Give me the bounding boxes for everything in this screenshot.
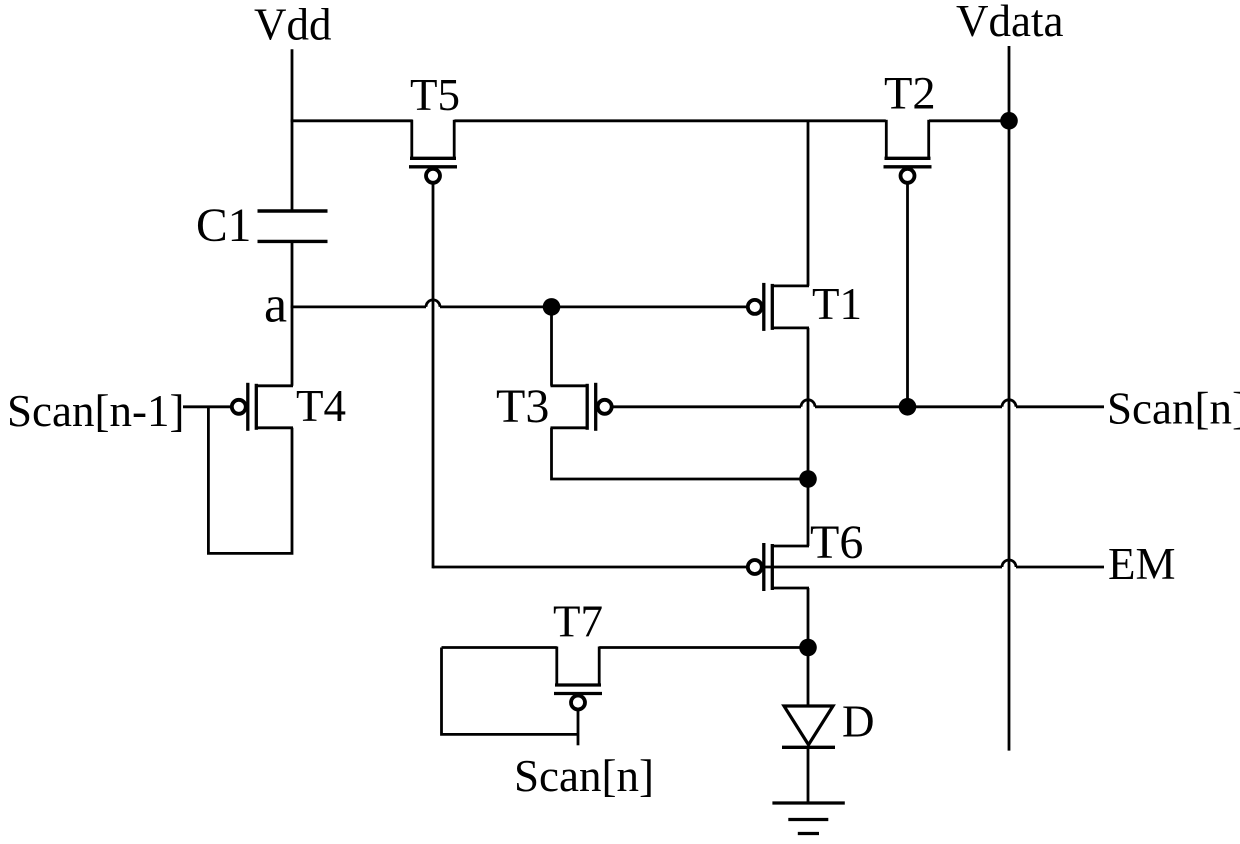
junction: Scan[n] / T2 gate: [899, 398, 917, 416]
transistor T5: [409, 120, 457, 183]
wire T7 gate down to Scan[n] label: [577, 710, 580, 745]
svg-text:Scan[n-1]: Scan[n-1]: [7, 386, 184, 436]
svg-text:EM: EM: [1108, 539, 1176, 589]
wire top rail: Vdd to T5: [291, 119, 413, 122]
svg-text:T1: T1: [812, 279, 862, 329]
svg-text:Scan[n]: Scan[n]: [514, 751, 654, 801]
svg-text:a: a: [264, 277, 287, 334]
svg-text:Vdd: Vdd: [254, 0, 332, 50]
wire Scan[n] (hops over T1 wire and Vdata): [612, 405, 1104, 408]
transistor T2: [884, 120, 932, 183]
wire T3 branch from node a: [550, 307, 553, 386]
svg-text:C1: C1: [196, 200, 251, 252]
svg-text:T7: T7: [553, 597, 603, 647]
wire T1 source down to node b: [807, 328, 810, 479]
wire top rail: T5 to T2: [454, 119, 885, 122]
wire diode anode: [807, 648, 810, 707]
wire T7 source loop to gate: [442, 648, 579, 735]
junction: node c (T7 / diode): [799, 639, 817, 657]
wire T5 gate down to EM: [432, 184, 435, 569]
wire T6 source down to node c: [807, 588, 810, 648]
svg-text:D: D: [842, 697, 875, 747]
wire C1 bottom plate down to T4 drain (through node a): [291, 241, 294, 385]
wire Scan[n-1] to T4 gate: [183, 405, 233, 408]
svg-text:T6: T6: [810, 516, 863, 569]
transistor T1: [748, 283, 809, 331]
transistor T4: [232, 383, 293, 431]
transistor T6: [748, 543, 809, 591]
diode D: [782, 706, 835, 747]
wire diode cathode to ground: [807, 747, 810, 803]
ground: [772, 803, 844, 834]
wire Vdd vertical: [291, 49, 294, 211]
wire node a horizontal (hops over T5 gate wire): [291, 305, 749, 308]
wire T3 source loop to node b: [552, 428, 809, 479]
svg-text:T3: T3: [496, 380, 549, 433]
wire EM (hops over Vdata): [433, 566, 1104, 569]
wire Vdata vertical: [1008, 46, 1011, 751]
svg-text:T2: T2: [884, 69, 936, 120]
wire T7 top rail: T7 right leg to node c: [599, 646, 808, 649]
svg-text:Vdata: Vdata: [956, 0, 1063, 46]
capacitor C1: [258, 211, 328, 241]
junction: top rail / Vdata: [1000, 112, 1018, 130]
transistor T7: [554, 647, 602, 710]
junction: T3 loop / T1-T6 wire (node b): [799, 470, 817, 488]
wire T1 drain up to top rail: [807, 121, 810, 286]
wire top rail: T2 to Vdata: [929, 119, 1009, 122]
wire T7 top rail: loop corner to T7 left leg: [442, 646, 557, 649]
wire node b down to T6 drain: [807, 479, 810, 546]
svg-text:T4: T4: [296, 381, 346, 431]
svg-text:T5: T5: [410, 70, 460, 120]
transistor T3: [551, 383, 612, 431]
svg-text:Scan[n]: Scan[n]: [1107, 383, 1240, 433]
junction: node a / T3 branch: [543, 298, 561, 316]
wire T2 gate down to Scan[n]: [906, 184, 909, 407]
wire T4 source loop to Scan[n-1]: [208, 407, 292, 554]
